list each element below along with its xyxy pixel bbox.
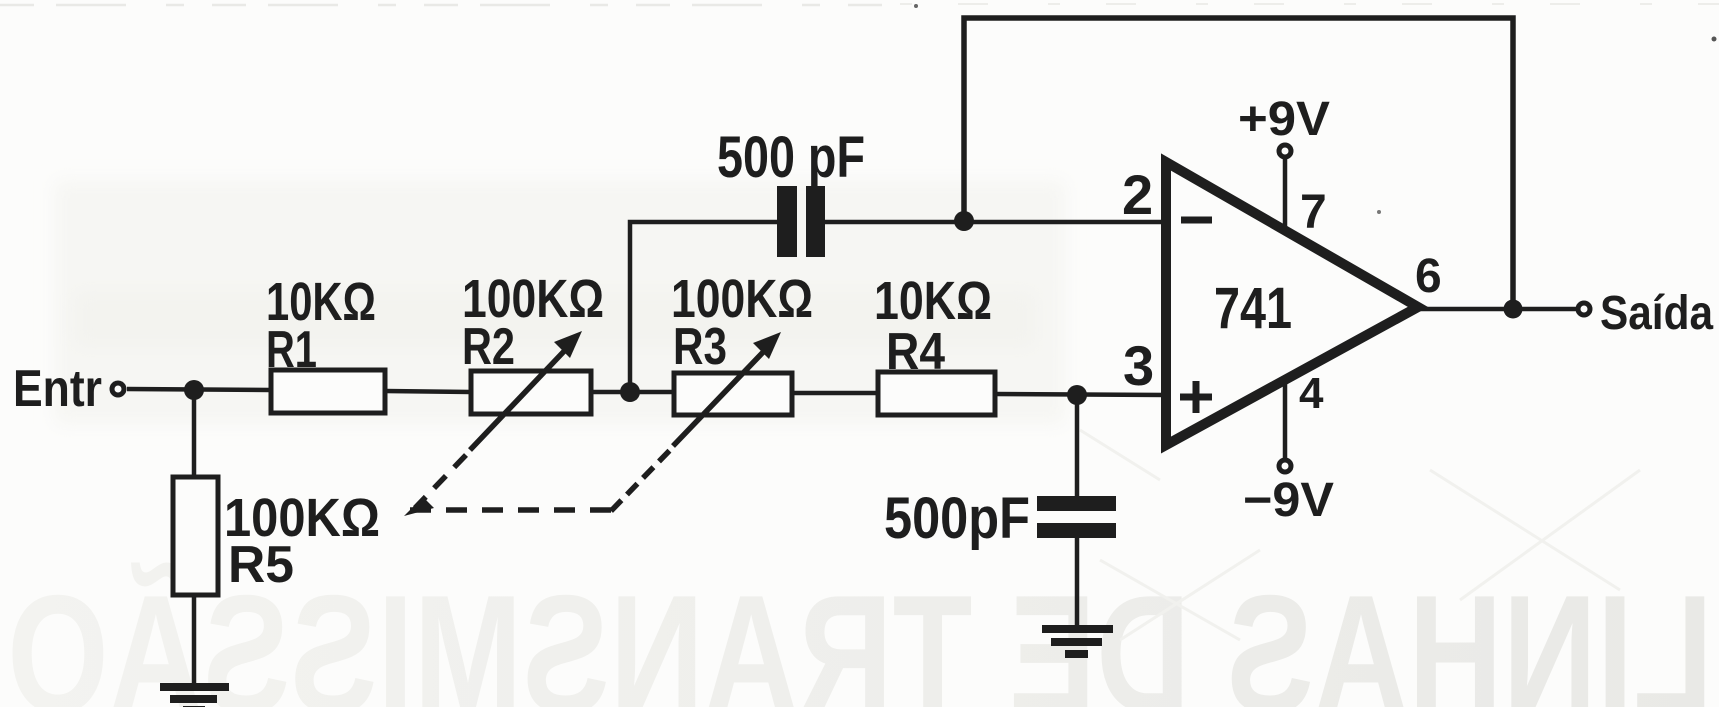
- svg-text:R1: R1: [266, 321, 317, 379]
- resistor R2 (variable): [471, 371, 591, 414]
- svg-text:500pF: 500pF: [884, 486, 1030, 551]
- arrowhead of dashed line: [404, 497, 434, 516]
- svg-text:741: 741: [1214, 276, 1292, 341]
- arrow of R2: [470, 331, 582, 450]
- svg-text:2: 2: [1122, 163, 1153, 226]
- svg-text:10KΩ: 10KΩ: [874, 271, 992, 331]
- svg-text:6: 6: [1415, 250, 1442, 303]
- svg-text:−9V: −9V: [1243, 474, 1334, 527]
- node Saida terminal: [1578, 303, 1590, 315]
- wire R2 to R3: [591, 390, 674, 395]
- svg-text:R5: R5: [228, 536, 294, 594]
- node output junction: [1504, 300, 1523, 319]
- op-amp U1 741: [1166, 162, 1418, 445]
- wire C2 to ground: [1075, 538, 1080, 627]
- node R2-R3 junction: [620, 382, 640, 402]
- wire R4 to op-amp pin3: [995, 394, 1168, 395]
- wire junction down to capacitor C2: [1075, 395, 1080, 497]
- svg-text:+9V: +9V: [1238, 93, 1330, 146]
- svg-text:R4: R4: [886, 323, 945, 381]
- wire R1 to R2: [385, 391, 471, 392]
- capacitor C1 500pF: [777, 186, 825, 257]
- node input junction: [184, 380, 204, 400]
- arrow of R3: [673, 332, 781, 446]
- terminal -9V: [1279, 460, 1291, 472]
- wire input junction down to R5: [192, 390, 197, 477]
- wire R3 to R4: [792, 391, 878, 396]
- wire junction up to capacitor C1: [630, 222, 778, 392]
- svg-text:Entr: Entr: [13, 360, 102, 418]
- dashed gang coupling line: [410, 448, 672, 511]
- ground of C2: [1042, 629, 1113, 654]
- svg-text:3: 3: [1123, 334, 1154, 397]
- pin 3 plus sign: [1180, 381, 1212, 413]
- wire output: [1418, 307, 1578, 312]
- wire feedback loop: [964, 18, 1513, 309]
- resistor R1: [271, 370, 385, 413]
- node pin3 junction: [1067, 385, 1087, 405]
- svg-text:4: 4: [1299, 369, 1324, 418]
- svg-text:7: 7: [1300, 186, 1327, 239]
- svg-text:Saída: Saída: [1600, 287, 1713, 340]
- svg-text:500 pF: 500 pF: [717, 125, 865, 190]
- node feedback junction: [954, 211, 974, 231]
- resistor R4: [878, 372, 995, 415]
- svg-text:R3: R3: [673, 318, 727, 376]
- ground of R5: [160, 687, 229, 707]
- wire pin 7 to +9V: [1283, 158, 1288, 231]
- wire C1 to op-amp pin2: [825, 220, 1168, 225]
- resistor R5: [173, 477, 218, 595]
- capacitor C2 500pF: [1037, 496, 1116, 538]
- resistor R3 (variable): [674, 373, 792, 415]
- wire pin 4 to -9V: [1283, 378, 1288, 460]
- wire input to R1: [127, 389, 271, 390]
- node Entr terminal: [112, 383, 124, 395]
- wire R5 to ground: [192, 595, 197, 686]
- terminal +9V: [1279, 145, 1291, 157]
- svg-text:R2: R2: [462, 318, 515, 376]
- pin 2 minus sign: [1181, 217, 1212, 224]
